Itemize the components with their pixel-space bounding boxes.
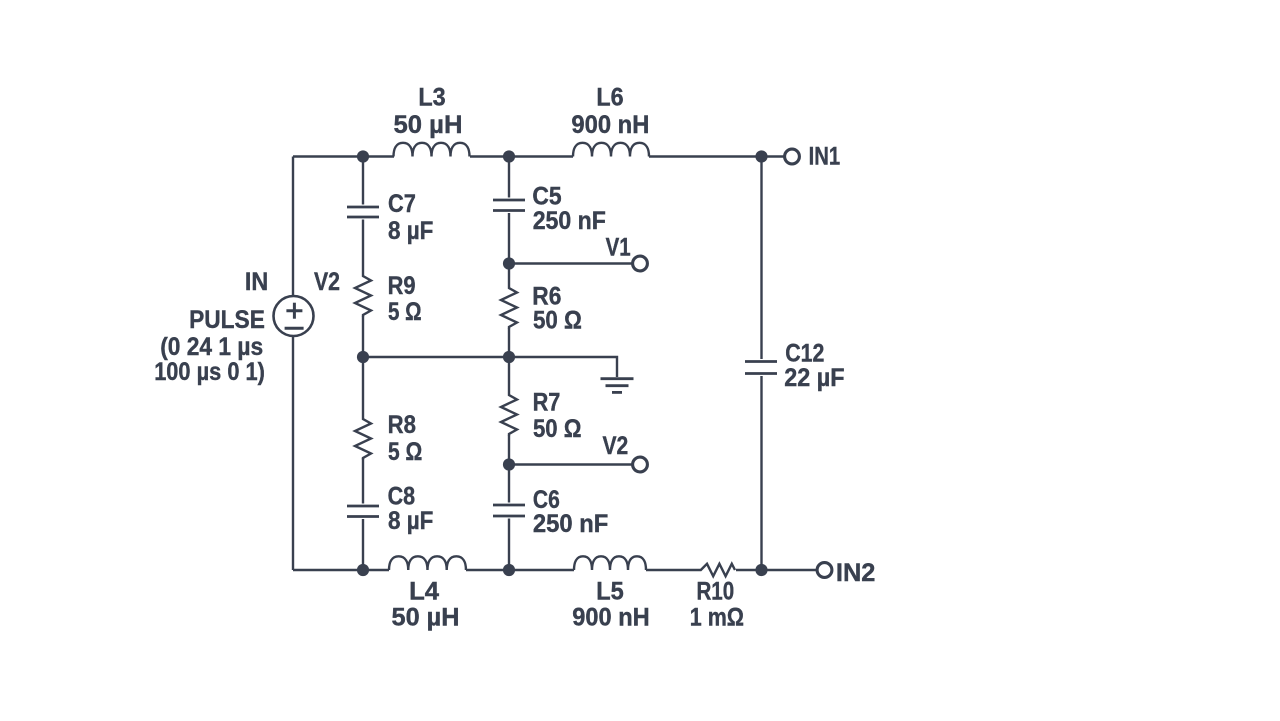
svg-text:IN1: IN1 — [809, 143, 841, 171]
svg-text:IN2: IN2 — [836, 559, 876, 587]
svg-text:1 mΩ: 1 mΩ — [690, 604, 744, 632]
svg-text:R7: R7 — [533, 389, 561, 417]
svg-text:50 Ω: 50 Ω — [533, 415, 582, 443]
svg-text:8 µF: 8 µF — [388, 217, 433, 245]
svg-text:PULSE: PULSE — [189, 306, 265, 334]
svg-text:250 nF: 250 nF — [533, 207, 606, 235]
svg-text:50 Ω: 50 Ω — [533, 306, 582, 334]
svg-text:L4: L4 — [409, 578, 439, 606]
svg-text:(0 24 1 µs: (0 24 1 µs — [160, 333, 263, 361]
svg-text:5 Ω: 5 Ω — [388, 298, 422, 326]
svg-text:5 Ω: 5 Ω — [388, 438, 422, 466]
svg-text:R9: R9 — [388, 272, 416, 300]
svg-text:50 µH: 50 µH — [394, 111, 463, 139]
svg-text:R8: R8 — [388, 411, 416, 439]
svg-text:V2: V2 — [603, 432, 629, 460]
svg-text:R10: R10 — [696, 578, 734, 606]
svg-text:L5: L5 — [596, 578, 624, 606]
svg-text:250 nF: 250 nF — [533, 510, 608, 538]
svg-text:900 nH: 900 nH — [571, 111, 649, 139]
svg-text:900 nH: 900 nH — [572, 604, 649, 632]
svg-text:V1: V1 — [606, 234, 631, 262]
svg-text:L3: L3 — [418, 83, 445, 111]
svg-text:50 µH: 50 µH — [392, 604, 460, 632]
svg-text:C7: C7 — [388, 190, 416, 218]
svg-text:IN: IN — [245, 268, 268, 296]
svg-text:22 µF: 22 µF — [784, 364, 844, 392]
svg-text:V2: V2 — [314, 268, 340, 296]
svg-text:8 µF: 8 µF — [388, 507, 433, 535]
svg-text:L6: L6 — [596, 83, 623, 111]
svg-text:100 µs 0 1): 100 µs 0 1) — [154, 358, 265, 386]
